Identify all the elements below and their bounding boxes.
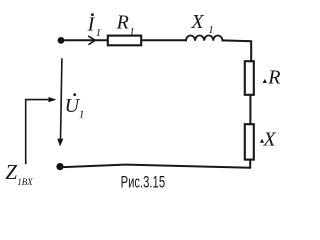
voltage arrow U1 head [57, 139, 63, 147]
svg-text:I: I [87, 14, 96, 36]
resistor R (right branch box) [245, 61, 254, 95]
inductor X1 coil [186, 35, 222, 40]
reactance X box [245, 124, 254, 159]
label X1 [190, 11, 213, 36]
label delta-X [260, 128, 277, 150]
wire from X box down to bottom-right corner [249, 160, 251, 168]
svg-text:Z: Z [5, 160, 17, 184]
wire from X1 to top-right corner and down [222, 40, 251, 61]
label Z1vx (input impedance) [5, 160, 33, 188]
wire top from terminal to R1 [64, 39, 107, 41]
wire from R1 to inductor X1 [141, 39, 186, 41]
current arrow I1 head [89, 36, 95, 44]
impedance pointer Z1vx head [49, 97, 57, 102]
svg-text:Рис.3.15: Рис.3.15 [121, 173, 166, 192]
impedance pointer Z1vx shaft [26, 100, 50, 164]
svg-text:1: 1 [208, 24, 214, 36]
wire bottom return [63, 165, 250, 168]
svg-text:X: X [262, 128, 276, 150]
svg-text:X: X [190, 11, 204, 33]
svg-text:1ВХ: 1ВХ [17, 178, 33, 188]
wire between R box and X box [249, 95, 251, 124]
label U1 (voltage) [65, 93, 85, 120]
node top-left input terminal [58, 37, 65, 44]
node bottom-left input terminal [56, 163, 63, 170]
label R1 [116, 11, 135, 38]
svg-text:R: R [267, 66, 280, 88]
svg-text:R: R [116, 11, 129, 33]
svg-text:1: 1 [129, 26, 135, 38]
svg-text:1: 1 [96, 27, 102, 39]
resistor R1 [108, 36, 141, 46]
label delta-R [263, 66, 281, 88]
svg-text:1: 1 [79, 109, 85, 121]
label I1 (current) [87, 13, 102, 39]
voltage arrow U1 shaft [61, 59, 62, 140]
